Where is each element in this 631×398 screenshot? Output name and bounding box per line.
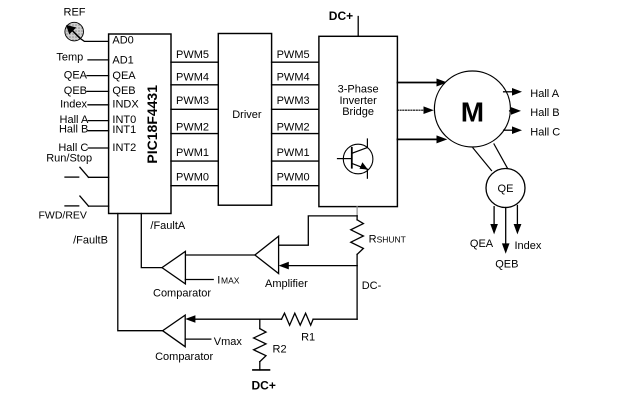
svg-text:Amplifier: Amplifier: [265, 278, 308, 290]
wire Temp to AD1: [88, 59, 109, 61]
wire Rshunt bottom tap to amplifier: [279, 262, 358, 270]
wire Rshunt bottom to DC- node: [356, 254, 358, 265]
svg-text:Inverter: Inverter: [339, 95, 377, 107]
svg-text:QEB: QEB: [495, 259, 518, 271]
svg-text:QEA: QEA: [112, 70, 136, 82]
wire junction to R2: [259, 319, 261, 328]
motor M: [434, 71, 510, 147]
wire inverter to Rshunt: [356, 207, 358, 216]
svg-text:Driver: Driver: [232, 109, 262, 121]
wire Imax input: [185, 279, 213, 281]
svg-text:Comparator: Comparator: [155, 351, 213, 363]
svg-text:AD1: AD1: [112, 54, 133, 66]
svg-text:3-Phase: 3-Phase: [338, 84, 379, 96]
svg-text:PWM4: PWM4: [176, 71, 209, 83]
svg-text:Hall B: Hall B: [530, 107, 559, 119]
svg-text:PWM0: PWM0: [277, 172, 310, 184]
svg-text:Run/Stop: Run/Stop: [46, 153, 92, 165]
wire comparator1 out /FaultA: [141, 214, 162, 268]
wire Hall B to INT1: [88, 130, 108, 132]
wire PWM2 Driver to Inverter: [272, 121, 319, 133]
wire Run/Stop switch to PIC: [89, 176, 109, 178]
svg-text:R: R: [369, 234, 377, 246]
wire FWD/REV switch to PIC: [89, 205, 109, 207]
wire Rshunt top tap to amplifier: [279, 216, 358, 245]
microcontroller U1 PIC18F4431: [109, 34, 171, 214]
wire pot to AD0: [80, 38, 109, 41]
svg-text:DC-: DC-: [362, 280, 382, 292]
svg-text:FWD/REV: FWD/REV: [39, 209, 87, 221]
svg-text:MAX: MAX: [221, 276, 240, 286]
wire DC+ to inverter: [357, 17, 359, 37]
wire PWM1 Driver to Inverter: [272, 147, 319, 161]
wire PWM2 PIC to Driver: [171, 121, 218, 133]
svg-text:/FaultA: /FaultA: [150, 220, 186, 232]
resistor R2: [254, 329, 266, 362]
resistor R1: [282, 313, 314, 325]
label Imax: [217, 275, 239, 287]
svg-text:PWM4: PWM4: [277, 71, 310, 83]
wire comparator2 top input from R divider: [185, 315, 260, 323]
svg-text:QEA: QEA: [64, 70, 88, 82]
wire Hall C from motor: [504, 126, 522, 134]
wire PWM1 PIC to Driver: [171, 147, 218, 161]
svg-text:R2: R2: [273, 344, 287, 356]
svg-text:/FaultB: /FaultB: [73, 235, 108, 247]
wire phase B inverter to motor (dotted): [397, 106, 433, 114]
wire PWM4 Driver to Inverter: [272, 71, 319, 84]
svg-text:DC+: DC+: [252, 379, 276, 393]
wire Hall C to INT2: [88, 147, 108, 149]
svg-text:Hall C: Hall C: [530, 126, 560, 138]
svg-text:Index: Index: [515, 240, 542, 252]
comparator 2: [155, 315, 213, 363]
svg-text:INT1: INT1: [112, 124, 136, 136]
shaft links motor to QE: [473, 144, 508, 171]
op-amp Amplifier: [255, 236, 308, 290]
wire DC- vertical: [356, 266, 358, 320]
label Rshunt: [369, 234, 406, 246]
wire PWM4 PIC to Driver: [171, 71, 218, 84]
wire R2 to DC+ rail: [259, 362, 261, 370]
wire PWM3 Driver to Inverter: [272, 95, 319, 110]
wire Index from QE: [514, 206, 522, 235]
power rail DC+ bottom: [253, 369, 270, 371]
svg-text:QEA: QEA: [470, 238, 494, 250]
svg-text:PWM0: PWM0: [176, 172, 209, 184]
wire Hall B from motor: [510, 107, 521, 115]
wire R1 to DC- line: [313, 318, 357, 320]
switch FWD/REV: [65, 196, 89, 206]
svg-text:Vmax: Vmax: [214, 336, 243, 348]
svg-text:SHUNT: SHUNT: [377, 235, 406, 245]
wire Hall A from motor: [504, 88, 522, 96]
svg-text:AD0: AD0: [112, 35, 133, 47]
svg-text:PWM1: PWM1: [277, 147, 310, 159]
wire PWM3 PIC to Driver: [171, 95, 218, 110]
svg-text:QEB: QEB: [112, 85, 135, 97]
svg-text:INT2: INT2: [112, 142, 136, 154]
svg-text:R1: R1: [301, 332, 315, 344]
wire phase C inverter to motor: [397, 135, 447, 143]
svg-text:PWM3: PWM3: [277, 95, 310, 107]
svg-text:QE: QE: [498, 183, 514, 195]
svg-text:PWM5: PWM5: [277, 49, 310, 61]
wire PWM5 Driver to Inverter: [272, 49, 319, 62]
wire PWM5 PIC to Driver: [171, 49, 218, 62]
svg-text:PWM2: PWM2: [277, 121, 310, 133]
wire QEA from QE: [490, 207, 498, 235]
wire R divider to R1: [260, 318, 282, 320]
svg-text:PWM3: PWM3: [176, 95, 209, 107]
wire PWM0 PIC to Driver: [171, 172, 218, 186]
wire Hall A to INT0: [88, 120, 108, 122]
svg-text:QEB: QEB: [64, 85, 87, 97]
wire phase A inverter to motor: [397, 79, 447, 87]
wire QEA: [87, 75, 109, 77]
wire QEB: [87, 90, 109, 92]
svg-text:PWM1: PWM1: [176, 147, 209, 159]
wire Vmax input: [185, 338, 211, 340]
svg-text:Hall B: Hall B: [59, 124, 88, 136]
svg-text:M: M: [461, 96, 484, 127]
svg-text:Hall A: Hall A: [530, 88, 559, 100]
svg-text:PIC18F4431: PIC18F4431: [144, 85, 160, 164]
svg-text:Index: Index: [60, 98, 87, 110]
driver block: [218, 34, 271, 206]
svg-text:DC+: DC+: [329, 9, 353, 23]
wire QEB from QE: [502, 208, 510, 254]
svg-text:REF: REF: [64, 7, 86, 19]
comparator 1: [153, 251, 211, 299]
svg-text:Bridge: Bridge: [342, 106, 374, 118]
svg-text:I: I: [217, 275, 220, 287]
wire PWM0 Driver to Inverter: [272, 172, 319, 186]
wire comparator2 out /FaultB: [118, 214, 163, 331]
svg-text:Temp: Temp: [56, 51, 83, 63]
switch Run/Stop: [65, 167, 89, 177]
transistor Q1 inside inverter: [338, 139, 373, 178]
svg-text:PWM5: PWM5: [176, 49, 209, 61]
3-phase inverter bridge block: [319, 36, 398, 206]
wire Index to INDX: [88, 104, 109, 106]
resistor Rshunt: [351, 220, 364, 255]
encoder QE: [486, 169, 525, 208]
potentiometer REF: [64, 7, 86, 41]
svg-text:Comparator: Comparator: [153, 288, 211, 300]
svg-text:PWM2: PWM2: [176, 121, 209, 133]
svg-text:INDX: INDX: [112, 98, 139, 110]
wire amplifier out to comparator1: [185, 254, 255, 256]
